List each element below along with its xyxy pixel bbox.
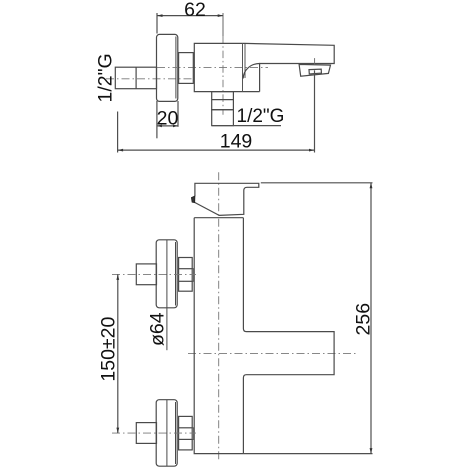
body right edge double line (242, 43, 244, 91)
dimension 20 (157, 101, 178, 138)
svg-text:1/2"G: 1/2"G (237, 106, 285, 127)
upper wall flange (156, 240, 177, 308)
lower hex nut (179, 416, 193, 450)
upper hex nut (179, 258, 193, 292)
dimension 149 arrows (118, 149, 315, 152)
svg-text:256: 256 (353, 303, 375, 336)
dimension 20 arrows (157, 125, 178, 128)
handle indicator notch (191, 196, 195, 203)
outlet thread line (212, 99, 234, 101)
dimension 256 (243, 183, 372, 454)
upper flange edge highlight (175, 242, 177, 306)
faucet body (front view) (194, 218, 334, 454)
spout fillet arc (243, 64, 259, 79)
upper wall pipe (136, 264, 156, 285)
pipe centerline (106, 78, 194, 80)
lower flange edge highlight (175, 402, 177, 464)
lower flange centerline (166, 400, 168, 467)
aerator centerline mark (314, 58, 316, 65)
spout (side view) (245, 43, 335, 91)
outlet centerline (vertical, also 62 extension) (222, 13, 224, 115)
svg-text:149: 149 (220, 131, 253, 153)
svg-text:62: 62 (184, 0, 206, 21)
svg-text:150±20: 150±20 (98, 317, 120, 382)
wall flange (side view) (157, 34, 178, 101)
svg-text:20: 20 (157, 108, 179, 130)
connector (side view) (179, 53, 194, 84)
lower wall pipe (136, 423, 156, 444)
svg-text:ø64: ø64 (147, 312, 169, 346)
body vertical centerline (218, 172, 220, 462)
body horizontal centerline (188, 353, 358, 355)
svg-text:1/2"G: 1/2"G (95, 53, 117, 102)
flange edge highlight (175, 37, 177, 99)
aerator insert (309, 69, 321, 74)
inlet pipe (side view) (115, 67, 156, 89)
dimension 149 (118, 70, 315, 152)
outlet underline leader to label (212, 125, 281, 127)
lower connection centerline (112, 432, 196, 434)
valve body (side view) (194, 43, 259, 91)
body centerline (horizontal) (157, 66, 268, 68)
upper connection centerline (112, 273, 196, 275)
outlet connector below body (212, 92, 234, 110)
outlet lower piece (212, 110, 234, 126)
aerator housing (299, 64, 330, 76)
upper flange centerline / ø64 leader (166, 240, 168, 350)
dimension 150±20 (117, 274, 119, 433)
handle lever (195, 183, 259, 215)
dimension 62 arrows (157, 14, 223, 17)
pipe divider (135, 67, 137, 89)
dimension 62 line (157, 13, 223, 34)
lower wall flange (156, 400, 177, 467)
